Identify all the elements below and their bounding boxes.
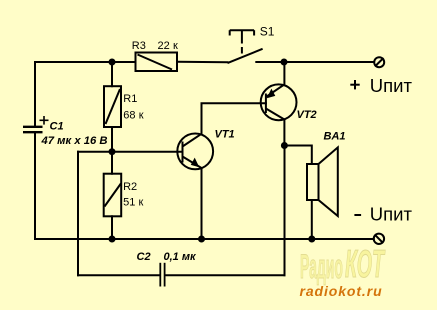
- svg-text:68к: 68к: [123, 109, 143, 121]
- svg-text:51к: 51к: [123, 196, 143, 208]
- wire C2 right lead: [165, 274, 284, 276]
- svg-text:radiokot.ru: radiokot.ru: [300, 283, 383, 299]
- watermark Радио КОТ: [300, 243, 386, 286]
- wire R3 to S1 left contact: [177, 61, 228, 64]
- svg-text:0,1 мк: 0,1 мк: [164, 251, 197, 263]
- wire VT1 emitter to rail: [201, 168, 203, 239]
- wire bottom rail: [35, 238, 374, 240]
- svg-text:Uпит: Uпит: [370, 204, 413, 225]
- transistor VT2 (PNP): [261, 84, 297, 120]
- wire node A to VT1 base: [112, 151, 183, 153]
- wire R2 top lead: [111, 152, 113, 174]
- resistor R1: [104, 86, 121, 127]
- wire left vertical lower (C1 bottom to rail): [34, 133, 36, 240]
- svg-text:VT2: VT2: [297, 109, 317, 121]
- svg-text:C2: C2: [137, 251, 151, 263]
- wire speaker bottom lead: [311, 200, 313, 239]
- speaker BA1: [307, 147, 338, 216]
- capacitor C1 (electrolytic): [23, 116, 49, 132]
- svg-text:VT1: VT1: [215, 129, 235, 141]
- svg-text:S1: S1: [260, 24, 275, 38]
- svg-text:КОТ: КОТ: [345, 243, 386, 286]
- junction node R2 bottom rail: [109, 236, 116, 243]
- terminal + Uпит: [374, 57, 384, 67]
- capacitor C2: [160, 263, 164, 287]
- junction node top VT2 emitter: [281, 59, 288, 66]
- junction node speaker bottom rail: [308, 236, 315, 243]
- svg-text:47 мк x 16 В: 47 мк x 16 В: [40, 135, 107, 147]
- transistor VT2 emitter arrow: [267, 89, 276, 99]
- label + Uпит: [350, 80, 359, 89]
- svg-text:R1: R1: [123, 93, 137, 105]
- wire R2 bottom lead: [111, 216, 113, 239]
- wire C2 left lead: [78, 274, 160, 276]
- svg-text:R3: R3: [132, 40, 146, 52]
- wire R1 bottom lead: [111, 127, 113, 152]
- wire VT2 emitter to top rail: [283, 62, 285, 84]
- transistor VT1 emitter arrow: [191, 158, 200, 168]
- svg-text:Радио: Радио: [300, 247, 343, 286]
- junction node VT1 emitter rail: [198, 236, 205, 243]
- junction node top R1: [109, 59, 116, 66]
- junction node A (R1/R2/VT1 base): [109, 148, 116, 155]
- resistor R3: [136, 53, 178, 72]
- switch S1 pushbutton: [228, 30, 263, 63]
- transistor VT1 (NPN): [177, 134, 213, 170]
- wire VT2 collector to speaker node: [283, 120, 285, 146]
- svg-text:R2: R2: [123, 181, 137, 193]
- svg-text:22к: 22к: [158, 40, 178, 52]
- svg-text:BA1: BA1: [324, 131, 346, 143]
- wire VT1 collector riser: [202, 103, 266, 134]
- junction node VT2 collector / speaker: [281, 142, 288, 149]
- label - Uпит: [354, 214, 361, 216]
- wire node A left to C2 branch corner: [78, 151, 112, 153]
- wire speaker top lead: [285, 146, 312, 165]
- wire S1 right contact to top terminal: [256, 61, 374, 63]
- wire C2 riser to VT2 collector: [284, 146, 286, 276]
- terminal - Uпит: [374, 234, 384, 244]
- wire C2 branch vertical: [77, 152, 79, 276]
- resistor R2: [104, 174, 122, 217]
- wire left vertical upper (to C1 top): [34, 62, 36, 126]
- wire top-left horizontal: [35, 61, 136, 63]
- wire R1 top lead: [111, 62, 113, 86]
- svg-text:C1: C1: [50, 121, 64, 133]
- svg-text:Uпит: Uпит: [370, 75, 413, 96]
